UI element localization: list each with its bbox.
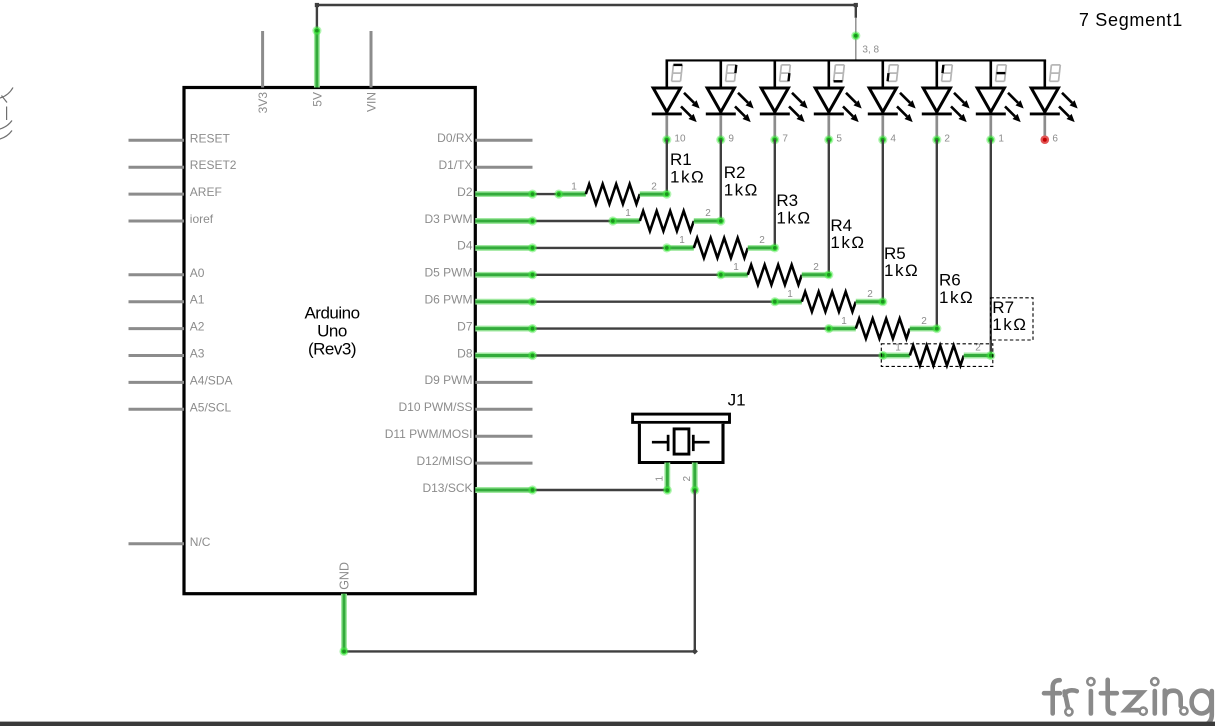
svg-text:1: 1	[655, 476, 666, 482]
resistor R3	[667, 235, 775, 258]
pin D8 (right)	[457, 346, 532, 360]
pin A4/SDA (left)	[129, 373, 233, 387]
pin number 5	[836, 134, 842, 145]
svg-text:R1: R1	[670, 150, 692, 169]
pin RESET2 (left)	[129, 158, 237, 172]
junction D7 terminal	[528, 324, 537, 333]
junction common anode terminal	[851, 31, 860, 40]
label R4 1k&#937;	[830, 216, 865, 252]
terminal segment pin 2	[932, 135, 941, 144]
svg-text:1kΩ: 1kΩ	[939, 288, 974, 307]
label R5 1k&#937;	[884, 244, 919, 280]
wire D8 to R7	[533, 354, 883, 356]
svg-text:A0: A0	[190, 266, 205, 280]
label R3 1k&#937;	[776, 191, 811, 227]
pin number 6	[1052, 134, 1058, 145]
svg-text:D6 PWM: D6 PWM	[425, 293, 473, 307]
selection box around resistor R7	[881, 344, 993, 367]
svg-text:D11 PWM/MOSI: D11 PWM/MOSI	[385, 427, 473, 441]
pin D6 PWM (right)	[425, 293, 533, 307]
pushbutton J1 pin 2	[682, 463, 695, 491]
svg-text:R4: R4	[830, 216, 852, 235]
pin D11 PWM/MOSI (right)	[385, 427, 533, 441]
svg-text:D5 PWM: D5 PWM	[425, 266, 473, 280]
svg-text:6: 6	[1052, 134, 1058, 145]
terminal R1 pin 2	[662, 190, 671, 199]
svg-text:Uno: Uno	[317, 321, 347, 340]
wire D4 to R3	[533, 247, 667, 249]
wire 5V to 7-segment common (net 5V)	[315, 3, 858, 30]
svg-text:2: 2	[867, 289, 873, 300]
terminal R6 pin 2	[932, 324, 941, 333]
svg-text:2: 2	[705, 208, 711, 219]
terminal GND	[339, 647, 348, 656]
wire LED1 cathode to R1	[666, 140, 668, 194]
fritzing watermark logo	[1044, 680, 1212, 726]
terminal R7 pin 2	[986, 351, 995, 360]
pin number 10	[674, 134, 686, 145]
pin A3 (left)	[129, 347, 205, 361]
svg-text:1: 1	[733, 262, 739, 273]
svg-text:1kΩ: 1kΩ	[884, 261, 919, 280]
terminal R5 pin 2	[878, 297, 887, 306]
svg-text:2: 2	[975, 343, 981, 354]
pin D2 (right)	[457, 185, 532, 199]
label R2 1k&#937;	[724, 163, 759, 199]
svg-text:RESET2: RESET2	[190, 158, 237, 172]
LED segment 1 of 7-segment (pin 10)	[652, 60, 700, 139]
terminal R2 pin 1	[608, 216, 617, 225]
pin D12/MISO (right)	[416, 454, 532, 468]
pin A1 (left)	[129, 293, 205, 307]
7-segment common pin (pins 3, 8)	[856, 18, 880, 61]
terminal J1 pin 2	[690, 486, 699, 495]
svg-text:9: 9	[728, 134, 734, 145]
terminal R3 pin 2	[770, 243, 779, 252]
svg-text:A2: A2	[190, 320, 205, 334]
LED segment 3 of 7-segment (pin 7)	[760, 60, 808, 139]
junction D6 terminal	[528, 297, 537, 306]
partial sidebar text (parts)	[0, 88, 13, 140]
svg-text:D1/TX: D1/TX	[438, 158, 472, 172]
pin D5 PWM (right)	[425, 266, 533, 280]
svg-text:1: 1	[625, 208, 631, 219]
wire LED5 cathode to R5	[882, 140, 884, 302]
svg-text:1kΩ: 1kΩ	[776, 208, 811, 227]
svg-text:4: 4	[890, 134, 896, 145]
pin 5V (top)	[310, 31, 324, 107]
terminal segment pin 9	[716, 135, 725, 144]
svg-text:A3: A3	[190, 347, 205, 361]
svg-text:D13/SCK: D13/SCK	[422, 481, 472, 495]
svg-text:1: 1	[787, 289, 793, 300]
junction D2 terminal	[528, 190, 537, 199]
svg-text:RESET: RESET	[190, 131, 231, 145]
terminal R3 pin 1	[662, 243, 671, 252]
pin number 1	[998, 134, 1004, 145]
resistor R2	[613, 208, 721, 231]
terminal segment pin 1	[986, 135, 995, 144]
terminal R4 pin 1	[716, 270, 725, 279]
svg-text:Arduino: Arduino	[304, 303, 359, 322]
LED segment 4 of 7-segment (pin 5)	[814, 60, 862, 139]
pin D7 (right)	[457, 319, 532, 333]
svg-text:A5/SCL: A5/SCL	[190, 400, 232, 414]
terminal segment pin 6	[1041, 135, 1050, 144]
svg-text:5V: 5V	[310, 92, 324, 107]
pin D3 PWM (right)	[425, 212, 533, 226]
pin number 4	[890, 134, 896, 145]
pin number 7	[782, 134, 788, 145]
svg-text:AREF: AREF	[190, 185, 222, 199]
arduino U1 (Arduino Uno Rev3)	[184, 88, 475, 594]
bottom window edge	[0, 722, 1215, 726]
svg-text:R3: R3	[776, 191, 798, 210]
svg-text:1: 1	[679, 235, 685, 246]
svg-text:D12/MISO: D12/MISO	[416, 454, 472, 468]
LED segment 7 of 7-segment (pin 1)	[976, 60, 1024, 139]
svg-text:1: 1	[841, 316, 847, 327]
pushbutton J1	[633, 414, 730, 462]
svg-text:R6: R6	[939, 271, 961, 290]
pin number 2	[944, 134, 950, 145]
svg-text:2: 2	[651, 181, 657, 192]
terminal segment pin 5	[824, 135, 833, 144]
svg-text:D9 PWM: D9 PWM	[425, 373, 473, 387]
svg-text:2: 2	[813, 262, 819, 273]
pin D9 PWM (right)	[425, 373, 533, 387]
wire LED4 cathode to R4	[828, 140, 830, 275]
svg-text:R7: R7	[992, 298, 1014, 317]
svg-text:7: 7	[782, 134, 788, 145]
LED segment 2 of 7-segment (pin 9)	[706, 60, 754, 139]
svg-text:R5: R5	[884, 244, 906, 263]
LED segment 6 of 7-segment (pin 2)	[922, 60, 970, 139]
svg-text:2: 2	[759, 235, 765, 246]
terminal R7 pin 1	[878, 351, 887, 360]
terminal R4 pin 2	[824, 270, 833, 279]
pin D0/RX (right)	[437, 131, 532, 145]
svg-text:1kΩ: 1kΩ	[830, 233, 865, 252]
terminal R6 pin 1	[824, 324, 833, 333]
wire D2 to R1	[533, 193, 559, 195]
svg-text:2: 2	[921, 316, 927, 327]
wire D5 to R4	[533, 274, 721, 276]
svg-text:N/C: N/C	[190, 535, 211, 549]
svg-text:ioref: ioref	[190, 212, 214, 226]
svg-text:D3 PWM: D3 PWM	[425, 212, 473, 226]
wire D6 to R5	[533, 301, 775, 303]
svg-text:GND: GND	[337, 562, 351, 590]
pushbutton J1 pin 1	[655, 463, 668, 491]
terminal R1 pin 1	[554, 190, 563, 199]
junction D3 terminal	[528, 216, 537, 225]
pin AREF (left)	[129, 185, 222, 199]
label J1	[728, 391, 746, 410]
junction D13 terminal	[528, 485, 537, 494]
label R6 1k&#937;	[939, 271, 974, 307]
junction D8 terminal	[528, 351, 537, 360]
svg-text:3, 8: 3, 8	[862, 45, 879, 56]
svg-text:1: 1	[571, 181, 577, 192]
pin A5/SCL (left)	[129, 400, 232, 414]
terminal segment pin 4	[878, 135, 887, 144]
svg-text:3V3: 3V3	[256, 92, 270, 114]
svg-text:1kΩ: 1kΩ	[992, 315, 1027, 334]
wire LED3 cathode to R3	[774, 140, 776, 248]
svg-text:D8: D8	[457, 346, 473, 360]
terminal R5 pin 1	[770, 297, 779, 306]
wire J1 pin 2 to GND	[344, 490, 698, 654]
svg-text:D4: D4	[457, 239, 473, 253]
pin RESET (left)	[129, 131, 231, 145]
wire LED2 cathode to R2	[720, 140, 722, 221]
svg-text:2: 2	[682, 476, 693, 482]
wire D3 to R2	[533, 220, 613, 222]
svg-text:1: 1	[998, 134, 1004, 145]
7-segment anode bus	[666, 59, 1047, 61]
resistor R7	[883, 343, 991, 366]
pin VIN (top)	[364, 31, 378, 112]
junction D4 terminal	[528, 243, 537, 252]
svg-text:D2: D2	[457, 185, 473, 199]
selection box around label R7	[991, 298, 1034, 340]
svg-text:1kΩ: 1kΩ	[724, 180, 759, 199]
svg-text:10: 10	[674, 134, 686, 145]
svg-text:1: 1	[895, 343, 901, 354]
junction D5 terminal	[528, 270, 537, 279]
wire D7 to R6	[533, 327, 829, 329]
svg-text:VIN: VIN	[364, 92, 378, 112]
svg-text:A1: A1	[190, 293, 205, 307]
pin D10 PWM/SS (right)	[398, 400, 532, 414]
pin D13/SCK (right)	[422, 481, 532, 495]
label R7 1k&#937;	[992, 298, 1027, 334]
wire LED7 cathode to R7	[990, 140, 992, 356]
LED segment 8 of 7-segment (pin 6)	[1030, 60, 1078, 139]
svg-text:2: 2	[944, 134, 950, 145]
svg-text:J1: J1	[728, 391, 746, 410]
resistor R6	[829, 316, 937, 339]
svg-text:D10 PWM/SS: D10 PWM/SS	[398, 400, 472, 414]
svg-text:1kΩ: 1kΩ	[670, 168, 705, 187]
pin N/C (left)	[129, 535, 211, 549]
svg-text:D0/RX: D0/RX	[437, 131, 472, 145]
terminal R2 pin 2	[716, 216, 725, 225]
pin A2 (left)	[129, 320, 205, 334]
pin D1/TX (right)	[438, 158, 532, 172]
terminal segment pin 7	[770, 135, 779, 144]
resistor R4	[721, 262, 829, 285]
pin A0 (left)	[129, 266, 205, 280]
resistor R1	[559, 181, 667, 204]
svg-text:A4/SDA: A4/SDA	[190, 373, 233, 387]
pin D4 (right)	[457, 239, 532, 253]
pin 3V3 (top)	[256, 31, 270, 113]
pin ioref (left)	[129, 212, 214, 226]
terminal segment pin 10	[662, 135, 671, 144]
label R1 1k&#937;	[670, 150, 705, 186]
svg-text:D7: D7	[457, 319, 473, 333]
resistor R5	[775, 289, 883, 312]
7-segment display 7SEG1 label	[1079, 10, 1183, 30]
pin number 9	[728, 134, 734, 145]
svg-text:R2: R2	[724, 163, 746, 182]
junction 5V pin terminal	[312, 26, 321, 35]
svg-text:7 Segment1: 7 Segment1	[1079, 10, 1183, 30]
wire D13/SCK to J1 pin 1	[533, 489, 668, 491]
LED segment 5 of 7-segment (pin 4)	[868, 60, 916, 139]
wire LED6 cathode to R6	[936, 140, 938, 329]
svg-text:5: 5	[836, 134, 842, 145]
terminal J1 pin 1	[663, 486, 672, 495]
pin GND (bottom)	[337, 562, 351, 651]
svg-text:(Rev3): (Rev3)	[308, 340, 356, 359]
